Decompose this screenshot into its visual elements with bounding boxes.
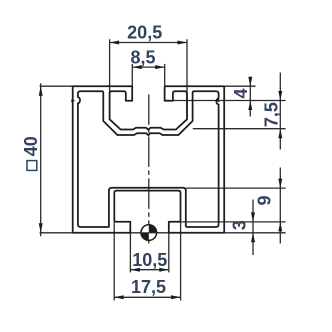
svg-text:40: 40 [21,136,41,156]
svg-text:20,5: 20,5 [127,22,162,42]
svg-text:9: 9 [255,195,275,205]
svg-text:10,5: 10,5 [132,250,167,270]
svg-text:17,5: 17,5 [131,277,166,297]
svg-text:3: 3 [230,220,250,230]
svg-text:8,5: 8,5 [130,47,155,67]
svg-text:7,5: 7,5 [262,102,282,127]
svg-text:4: 4 [231,88,251,98]
